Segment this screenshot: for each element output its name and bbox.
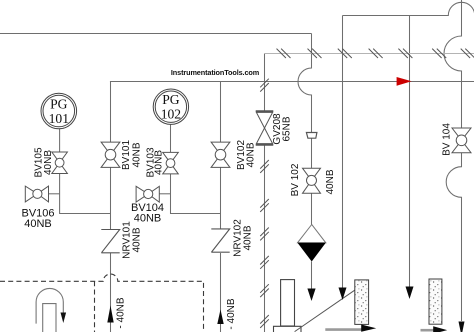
svg-text:NRV10240NB: NRV10240NB bbox=[233, 219, 254, 257]
svg-text:BV10240NB: BV10240NB bbox=[236, 140, 257, 170]
svg-text:40NB: 40NB bbox=[325, 169, 336, 194]
svg-text:PG: PG bbox=[162, 92, 180, 107]
svg-text:40NB: 40NB bbox=[134, 213, 162, 225]
svg-text:BV10540NB: BV10540NB bbox=[34, 147, 55, 177]
svg-text:BV10140NB: BV10140NB bbox=[121, 140, 143, 170]
svg-text:BV10340NB: BV10340NB bbox=[146, 147, 165, 177]
svg-text:40NB: 40NB bbox=[24, 218, 52, 230]
svg-text:- 40NB: - 40NB bbox=[116, 297, 127, 328]
svg-text:NRV10140NB: NRV10140NB bbox=[122, 221, 143, 259]
svg-text:BV 102: BV 102 bbox=[290, 163, 301, 196]
svg-text:- 40NB: - 40NB bbox=[226, 298, 237, 329]
svg-text:102: 102 bbox=[161, 107, 182, 122]
svg-text:101: 101 bbox=[49, 111, 69, 126]
svg-text:PG: PG bbox=[50, 97, 68, 112]
svg-text:BV 104: BV 104 bbox=[442, 123, 453, 156]
svg-text:GV20865NB: GV20865NB bbox=[272, 113, 293, 145]
svg-text:InstrumentationTools.com: InstrumentationTools.com bbox=[171, 68, 260, 77]
